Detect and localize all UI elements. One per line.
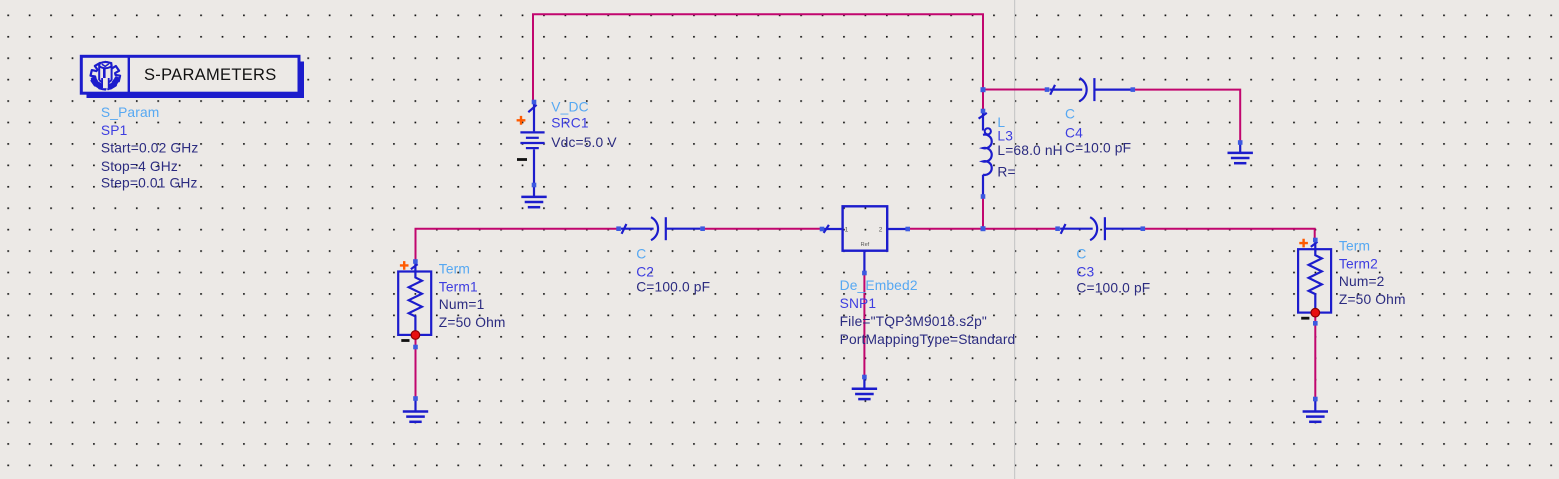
svg-text:V_DC: V_DC [551,100,588,115]
connector square SNP1 pin2 [905,227,910,232]
svg-text:File="TQP3M9018.s2p": File="TQP3M9018.s2p" [840,314,987,329]
svg-text:C: C [636,247,646,262]
wire SNP1 ref to ground [863,273,865,377]
page boundary line [1014,0,1016,479]
port Term2 [1298,241,1331,312]
connector square L3 bottom [981,194,986,199]
inductor L3 [979,112,992,197]
connector square Term1 below [413,345,418,350]
connector square C2 right [700,226,705,231]
svg-text:Num=1: Num=1 [439,297,485,312]
svg-text:Z=50 Ohm: Z=50 Ohm [439,315,506,330]
svg-text:Term1: Term1 [439,279,478,294]
ground below SRC1 [521,185,546,207]
connector square L3 top [981,109,986,114]
svg-text:Start=0.02 GHz: Start=0.02 GHz [101,141,199,156]
connector square SRC1 top [532,100,537,105]
wire L3 bottom to main net [982,197,984,229]
simulation gear icon [91,62,121,90]
svg-text:SNP1: SNP1 [840,296,877,311]
svg-text:Num=2: Num=2 [1339,274,1385,289]
svg-text:SP1: SP1 [101,123,128,138]
svg-text:C=100.0 pF: C=100.0 pF [636,280,710,295]
plus sign SRC1 [517,116,526,125]
minus sign Term1 [401,339,409,342]
voltage source U=SRC1 battery [520,103,544,185]
wire Term1 bottom to ground [415,337,417,399]
junction node x983 main wire [981,226,986,231]
S-PARAMETERS controller block [81,56,304,98]
svg-text:L=68.0 nH: L=68.0 nH [997,143,1062,158]
junction dot Term2 [1311,308,1320,317]
wire Term1 riser and to C2 [416,229,619,261]
svg-text:R=: R= [997,164,1015,179]
ground below Term1 [403,400,428,422]
svg-text:C: C [1076,247,1086,262]
svg-text:C=10.0 pF: C=10.0 pF [1065,141,1131,156]
wire C4 to ground corner [1133,90,1240,141]
svg-text:Vdc=5.0 V: Vdc=5.0 V [551,135,617,150]
minus sign SRC1 [517,158,527,161]
svg-text:Ref: Ref [861,242,870,248]
connector square SNP1 ref [862,271,867,276]
connector square C4 gnd [1238,140,1243,145]
svg-text:S-PARAMETERS: S-PARAMETERS [144,66,277,84]
port Term1 [398,264,431,335]
connector square Term2 below [1313,321,1318,326]
svg-text:C2: C2 [636,264,654,279]
connector square Term1 top [413,259,418,264]
svg-text:De_Embed2: De_Embed2 [840,278,918,293]
plus sign Term1 [400,261,409,270]
wire C3 to Term2 [1143,229,1315,239]
svg-text:PortMappingType=Standard: PortMappingType=Standard [840,332,1016,347]
svg-text:Z=50 Ohm: Z=50 Ohm [1339,292,1406,307]
svg-text:Step=0.01 GHz: Step=0.01 GHz [101,175,198,190]
connector square SRC1 bottom [532,183,537,188]
connector square C4 left [1045,87,1050,92]
ground below Term2 [1303,400,1328,422]
junction dot Term1 [411,331,420,340]
connector square C3 right [1141,226,1146,231]
connector square Term2 gnd [1313,397,1318,402]
connector square C2 left [616,226,621,231]
capacitor C3 [1060,217,1141,240]
junction node x983 top [981,87,986,92]
ground right of C4 [1228,141,1253,163]
wire SNP1 pin2 to C3 [908,228,1058,230]
wire Term2 bottom to ground [1314,315,1316,399]
ground below SNP1 [852,377,877,399]
minus sign Term2 [1301,317,1309,320]
connector square Term1 gnd [413,396,418,401]
svg-text:Term2: Term2 [1339,256,1378,271]
svg-text:S_Param: S_Param [101,105,160,120]
connector square Term2 top [1313,238,1318,243]
svg-text:Term: Term [439,262,470,277]
connector square C3 left [1055,226,1060,231]
svg-text:2: 2 [879,227,883,234]
svg-text:Term: Term [1339,239,1370,254]
svg-text:1: 1 [845,227,849,234]
wire C2 to SNP1 pin1 [703,228,822,230]
capacitor C4 [1050,78,1131,101]
s2p block SNP1 [824,206,906,272]
connector square SNP1 pin1 [820,227,825,232]
svg-text:Stop=4 GHz: Stop=4 GHz [101,159,178,174]
svg-text:C: C [1065,107,1075,122]
svg-text:C=100.0 pF: C=100.0 pF [1076,281,1150,296]
svg-text:L3: L3 [997,128,1013,143]
plus sign Term2 [1299,239,1308,248]
wire branch node x983 to C4 [983,89,1046,91]
capacitor C2 [621,217,700,240]
wire top from SRC1 to node at x983 [533,14,983,111]
svg-text:C4: C4 [1065,125,1083,140]
svg-text:SRC1: SRC1 [551,115,588,130]
svg-text:C3: C3 [1076,264,1094,279]
connector square SNP1 gnd [862,375,867,380]
connector square C4 right [1131,87,1136,92]
